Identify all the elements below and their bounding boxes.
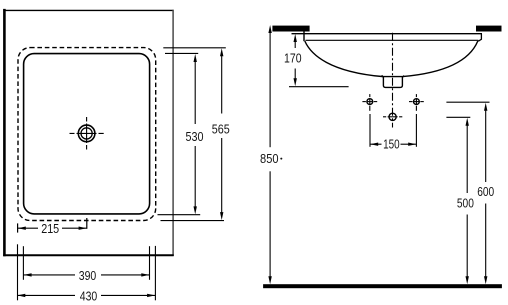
dimension 215 line <box>18 227 87 230</box>
dimension 390 line <box>23 273 149 276</box>
svg-text:215: 215 <box>41 222 59 236</box>
extension line 530 bottom <box>158 214 201 216</box>
basin outer flange (dashed rounded rect) <box>18 48 156 221</box>
dimension 215 tick right (centerline) <box>86 218 88 229</box>
floor line <box>263 284 502 288</box>
dimension 600 line <box>484 103 487 284</box>
dimension 150 line <box>370 143 416 146</box>
countertop top edge <box>3 9 173 11</box>
extension line 500 top <box>446 116 470 118</box>
countertop section bar right <box>476 26 502 32</box>
countertop bottom edge <box>3 254 174 256</box>
extension line 430 left <box>17 244 19 300</box>
extension line 565 bottom <box>161 220 225 222</box>
drain centerline vertical <box>86 117 88 150</box>
basin rim right edge <box>478 34 481 42</box>
dimension 565 line <box>220 48 223 220</box>
faucet hole right crosshair <box>409 94 424 111</box>
svg-text:530: 530 <box>186 130 204 144</box>
dot after 850 <box>280 158 282 160</box>
dimension 170 line <box>294 34 297 86</box>
dimension 215 tick left <box>17 223 19 232</box>
extension line 150 left <box>369 114 371 147</box>
svg-text:600: 600 <box>477 185 494 199</box>
drain outer circle <box>78 125 95 142</box>
drain centerline horizontal <box>70 132 104 134</box>
dimension 430 line <box>17 294 155 297</box>
extension line 600 top <box>446 101 489 103</box>
countertop right edge <box>172 10 174 256</box>
faucet hole left crosshair <box>362 94 377 111</box>
overflow hole <box>389 113 396 120</box>
basin rim left edge <box>303 31 305 41</box>
faucet hole right <box>414 99 420 105</box>
svg-text:390: 390 <box>79 269 97 283</box>
basin rim top line <box>292 33 483 35</box>
dimension 530 line <box>194 54 197 214</box>
drain fitting <box>382 75 405 87</box>
extension line 565 top <box>163 47 226 49</box>
basin rim bottom line <box>306 39 479 41</box>
countertop left edge (thick) <box>3 9 6 256</box>
svg-text:850: 850 <box>260 152 279 166</box>
extension line 530 top <box>165 52 198 54</box>
faucet hole left <box>367 99 373 105</box>
vertical centerline <box>392 33 394 128</box>
dimension 850 line <box>268 25 271 284</box>
svg-text:500: 500 <box>457 197 474 211</box>
countertop section bar left <box>272 26 309 32</box>
extension line 430 right <box>154 246 156 300</box>
svg-text:150: 150 <box>383 138 400 152</box>
basin rim (solid rounded rect) <box>24 54 150 214</box>
extension line 150 right <box>415 114 417 147</box>
drain inner circle <box>81 128 92 139</box>
svg-text:430: 430 <box>80 289 98 303</box>
overflow hole side dashes <box>383 116 402 118</box>
bowl curve <box>305 41 478 77</box>
extension line 390 right <box>149 246 151 280</box>
svg-text:170: 170 <box>284 52 302 66</box>
extension line 390 left <box>22 246 24 280</box>
dimension 500 line <box>466 118 469 284</box>
svg-text:565: 565 <box>212 123 230 137</box>
extension line 170 bottom <box>289 86 349 88</box>
